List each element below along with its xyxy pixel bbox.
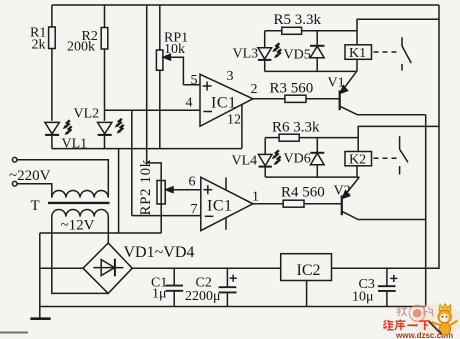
wire ground line (40, 232, 161, 234)
relay K2 (345, 152, 372, 166)
svg-text:~220V: ~220V (9, 168, 51, 184)
watermark stamp (396, 305, 433, 321)
svg-text:VL2: VL2 (74, 107, 100, 122)
svg-text:R6 3.3k: R6 3.3k (272, 119, 320, 135)
ground (30, 317, 50, 320)
svg-text:RP2 10k: RP2 10k (138, 159, 154, 215)
switch K2 contact (399, 136, 401, 149)
capacitor C1 (173, 268, 175, 285)
LED VL3 (264, 31, 266, 48)
terminal AC input top (12, 157, 17, 162)
svg-text:VL1: VL1 (62, 137, 88, 152)
wire 220V bottom (17, 184, 52, 198)
wire K2 dashed link (374, 157, 399, 159)
resistor R4 (283, 200, 304, 207)
wire VL3 cell bottom (265, 70, 357, 72)
svg-text:VD1~VD4: VD1~VD4 (124, 244, 195, 261)
diode VD6 (316, 138, 318, 153)
svg-text:V2: V2 (334, 184, 351, 199)
svg-text:R4 560: R4 560 (281, 185, 325, 201)
glyph pian (424, 307, 433, 317)
wire collector bus (425, 115, 427, 307)
wire pin7 input (132, 215, 201, 217)
glyph wei (383, 320, 393, 330)
wire ground left column (39, 233, 41, 319)
svg-text:IC1: IC1 (211, 95, 237, 112)
op-amp U1 IC1a (200, 74, 253, 126)
wire pin1 output (253, 203, 283, 205)
resistor R6 (279, 134, 299, 141)
op-amp U2 IC1b (201, 177, 253, 230)
svg-text:12: 12 (227, 113, 241, 128)
wire 220V top (17, 160, 108, 198)
svg-text:K1: K1 (349, 46, 366, 61)
wire pin12 riser (241, 105, 243, 149)
wire pin5 input (183, 84, 200, 86)
switch K1 contact (401, 37, 403, 46)
relay K1 (345, 45, 372, 60)
glyph ku (395, 320, 405, 331)
wire K1 feed branch (357, 18, 439, 20)
regulator IC2 (281, 254, 332, 281)
wire secondary left to bridge bottom (52, 217, 108, 294)
wire K1 feed drop (356, 19, 358, 45)
wire right border (332, 5, 440, 268)
diode VD5 (316, 31, 318, 46)
wire K2 feed branch (358, 126, 439, 151)
wire rail to ground column (118, 149, 120, 233)
svg-text:2: 2 (251, 82, 258, 97)
svg-text:IC1: IC1 (207, 198, 233, 215)
bridge rectifier VD1-VD4 (83, 243, 132, 293)
potentiometer RP2 (157, 181, 165, 205)
wire pin2 output (253, 98, 285, 100)
wire pins 4-7 tie column (131, 110, 133, 215)
scan smudge bottom-left (0, 332, 28, 334)
svg-text:VL4: VL4 (232, 154, 258, 169)
svg-text:1: 1 (252, 190, 259, 205)
svg-text:10k: 10k (164, 42, 185, 57)
resistor R5 (282, 27, 302, 34)
capacitor C3 (386, 268, 388, 285)
wire top +V rail (52, 4, 439, 6)
svg-text:6: 6 (189, 175, 196, 190)
svg-text:5: 5 (191, 73, 198, 88)
glyph yi (407, 324, 418, 326)
watermark text (383, 320, 430, 331)
wire K1 dashed link (374, 51, 400, 53)
wire secondary right to bridge top (107, 217, 109, 243)
svg-text:VL3: VL3 (233, 47, 259, 62)
resistor R3 (285, 95, 306, 102)
glyph zhao (396, 307, 406, 316)
LED VL3 cell top wire (265, 30, 282, 32)
terminal AC input bottom (12, 181, 17, 186)
svg-text:7: 7 (191, 202, 198, 217)
wire bottom rail (40, 306, 426, 308)
svg-text:VD6: VD6 (284, 152, 311, 167)
wire pin6 input (172, 189, 201, 191)
resistor R2 (104, 5, 106, 28)
svg-text:T: T (31, 198, 40, 214)
transformer T primary (52, 191, 108, 198)
svg-text:VD5: VD5 (284, 48, 311, 63)
resistor R1 (51, 5, 53, 27)
svg-text:R3 560: R3 560 (270, 81, 314, 97)
wire VL4 cell bottom (265, 176, 359, 178)
svg-text:200k: 200k (67, 40, 95, 55)
transformer T secondary (52, 210, 108, 217)
LED VL2 (98, 122, 112, 133)
transistor Q1 V1 (339, 90, 341, 110)
svg-text:IC2: IC2 (297, 262, 321, 279)
svg-text:~12V: ~12V (61, 218, 95, 234)
potentiometer RP1 (159, 5, 161, 50)
wire RP2 top feed column (147, 5, 162, 181)
watermark halo (412, 303, 460, 337)
svg-text:4: 4 (186, 96, 193, 111)
svg-text:2200μ: 2200μ (185, 289, 221, 304)
wire pin4 input (105, 109, 201, 111)
LED VL4 (264, 138, 266, 155)
svg-text:V1: V1 (328, 76, 345, 91)
label R1 (9, 12, 375, 305)
svg-text:2k: 2k (32, 38, 46, 53)
svg-text:10μ: 10μ (352, 290, 374, 305)
svg-text:3: 3 (227, 69, 234, 84)
transistor Q2 V2 (341, 195, 343, 215)
svg-text:K2: K2 (349, 152, 366, 167)
capacitor C2 (226, 268, 228, 286)
glyph xia (420, 321, 431, 330)
transformer T core (48, 202, 110, 204)
LED VL4 cell top wire (265, 137, 279, 139)
LED VL1 (45, 122, 59, 133)
svg-text:R5 3.3k: R5 3.3k (274, 12, 322, 28)
wire +12V raw rail (132, 267, 281, 269)
wire sensor rail under LEDs (52, 148, 242, 150)
watermark mascot (429, 304, 458, 335)
wire bridge left output (40, 267, 83, 269)
svg-text:1μ: 1μ (152, 287, 167, 302)
